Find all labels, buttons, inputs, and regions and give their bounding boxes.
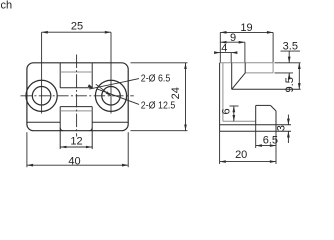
svg-text:19: 19 [240,22,252,34]
svg-text:2-Ø 12.5: 2-Ø 12.5 [141,99,176,111]
svg-text:6: 6 [221,108,233,114]
svg-text:25: 25 [71,20,83,32]
svg-text:3: 3 [275,125,287,131]
svg-text:6.5: 6.5 [263,135,278,147]
svg-text:24: 24 [170,87,182,99]
svg-text:4: 4 [221,42,227,54]
svg-text:ch: ch [1,0,13,12]
svg-text:12: 12 [70,136,82,148]
svg-text:3.5: 3.5 [283,41,298,53]
svg-text:9.5: 9.5 [284,77,296,92]
svg-text:2-Ø 6.5: 2-Ø 6.5 [141,72,171,84]
svg-text:20: 20 [235,149,247,161]
svg-text:9: 9 [230,32,236,44]
svg-text:40: 40 [68,156,80,168]
